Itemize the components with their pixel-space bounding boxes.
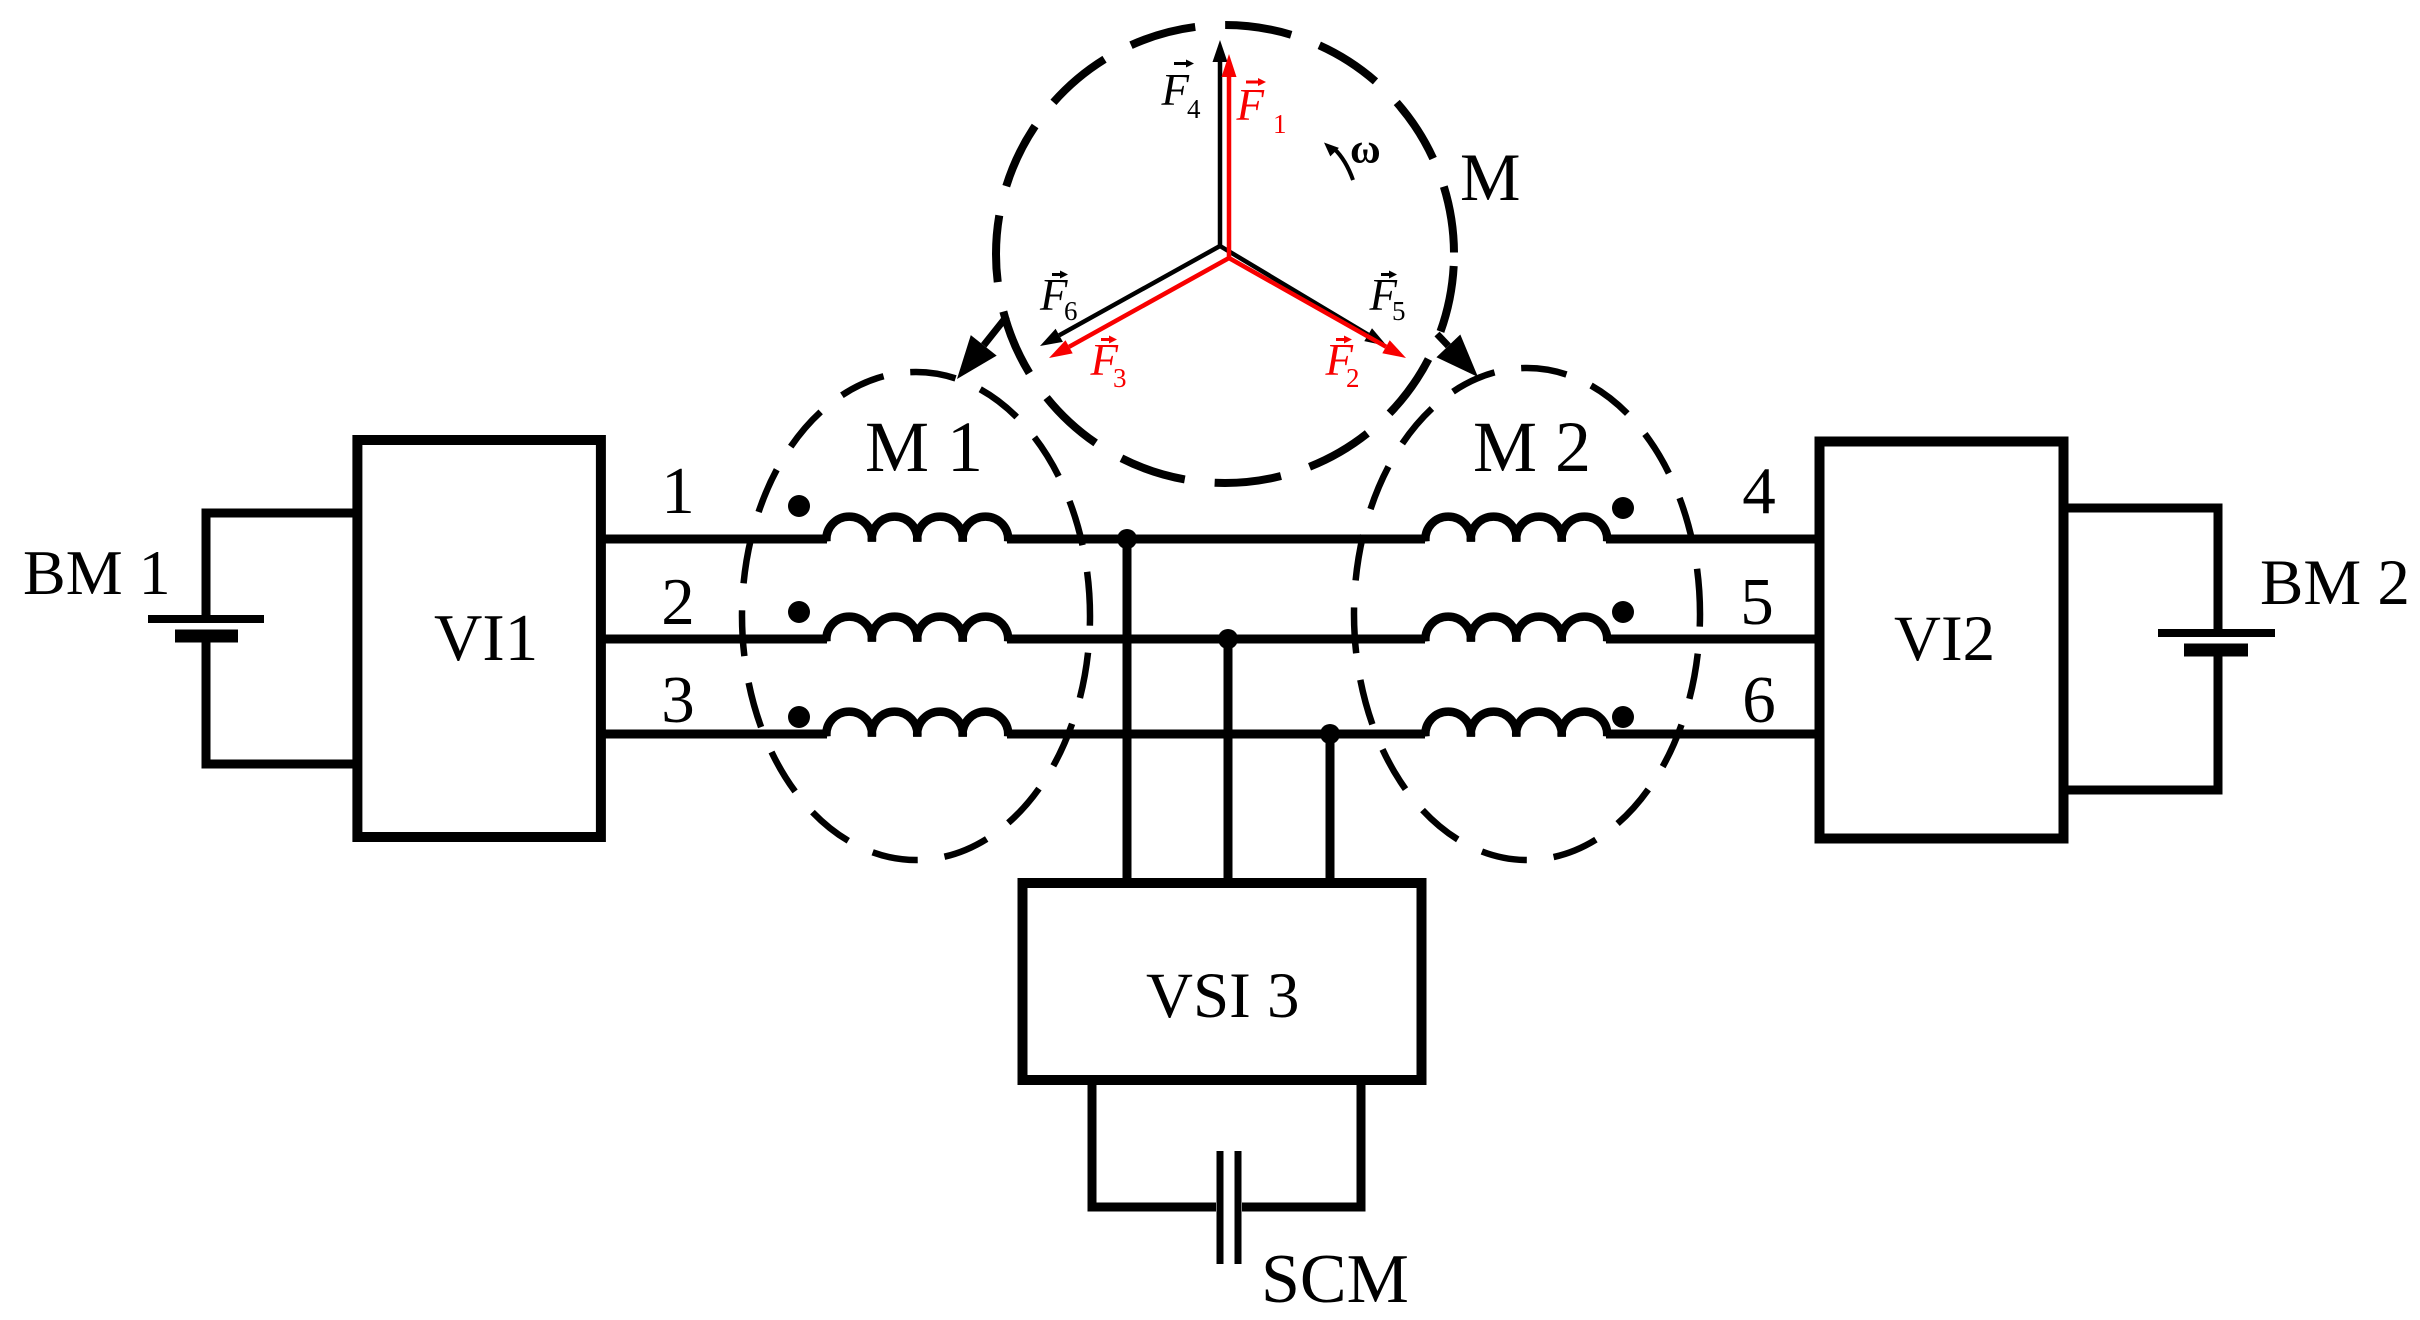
- svg-text:M 1: M 1: [865, 407, 983, 487]
- svg-text:2: 2: [661, 565, 695, 639]
- svg-text:M: M: [1460, 139, 1520, 215]
- svg-text:5: 5: [1392, 296, 1406, 326]
- svg-text:6: 6: [1064, 296, 1078, 326]
- svg-text:1: 1: [661, 454, 695, 528]
- svg-text:BM 2: BM 2: [2260, 547, 2410, 619]
- svg-text:VSI 3: VSI 3: [1146, 960, 1300, 1032]
- svg-text:F: F: [1236, 80, 1265, 130]
- svg-text:4: 4: [1187, 94, 1201, 124]
- svg-text:5: 5: [1740, 565, 1774, 639]
- svg-text:2: 2: [1346, 363, 1360, 393]
- svg-text:6: 6: [1742, 663, 1776, 737]
- svg-text:M 2: M 2: [1473, 407, 1591, 487]
- svg-text:ω: ω: [1350, 127, 1381, 173]
- svg-text:3: 3: [661, 663, 695, 737]
- svg-text:1: 1: [1273, 109, 1287, 139]
- svg-text:VI2: VI2: [1894, 603, 1995, 675]
- svg-text:F: F: [1161, 65, 1190, 115]
- svg-text:4: 4: [1742, 454, 1776, 528]
- svg-text:SCM: SCM: [1261, 1241, 1409, 1318]
- svg-text:VI1: VI1: [434, 601, 538, 675]
- svg-text:3: 3: [1113, 363, 1127, 393]
- svg-text:BM 1: BM 1: [23, 537, 171, 608]
